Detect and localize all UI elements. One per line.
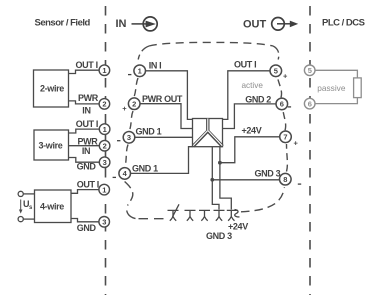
polarity minus T6: [288, 106, 291, 108]
4-wire transmitter box: [35, 190, 72, 223]
svg-text:+24V: +24V: [242, 125, 262, 135]
svg-text:GND 1: GND 1: [136, 127, 162, 137]
svg-text:6: 6: [280, 100, 284, 109]
bus connector pin 1: [168, 204, 180, 221]
svg-text:GND 2: GND 2: [245, 94, 271, 104]
isolator U1 box: [193, 119, 223, 147]
wire T6 GND 2 from isolator: [223, 104, 277, 129]
2-wire transmitter box: [34, 70, 69, 107]
polarity minus T4: [113, 176, 116, 178]
svg-text:passive: passive: [317, 83, 346, 93]
wire 4-wire OUT I: [71, 190, 99, 194]
isolator supply wire B down to bus: [220, 147, 231, 210]
bus connector pin 3: [199, 210, 210, 220]
field terminal 2 (3-wire): [99, 140, 110, 151]
wire 2-wire PWR IN: [69, 101, 100, 104]
svg-text:IN I: IN I: [149, 61, 162, 71]
field terminal 1 (4-wire): [99, 184, 110, 195]
supply terminal bottom (4-wire): [18, 217, 23, 222]
wire T1 IN I to isolator: [146, 71, 193, 120]
svg-text:IN: IN: [116, 18, 127, 30]
passive terminal 5: [304, 65, 315, 76]
module terminal 4: [119, 168, 131, 180]
wire T7 +24V: [220, 137, 280, 163]
svg-text:OUT: OUT: [243, 19, 267, 31]
isolator isolation Y barrier: [193, 119, 223, 147]
wire 3-wire GND: [69, 158, 100, 163]
module terminal 1: [134, 65, 146, 77]
module terminal 7: [280, 131, 292, 143]
module terminal 6: [276, 98, 288, 110]
module terminal 2: [128, 98, 140, 110]
svg-text:5: 5: [308, 66, 312, 75]
passive terminal 6: [304, 98, 315, 109]
svg-text:2: 2: [132, 100, 136, 109]
module terminal 3: [123, 132, 135, 144]
passive load wire top: [315, 70, 357, 78]
wire 4-wire GND: [71, 219, 99, 222]
svg-text:GND 3: GND 3: [255, 169, 281, 179]
passive load resistor: [354, 78, 362, 98]
svg-text:2: 2: [102, 100, 106, 109]
svg-text:3: 3: [103, 158, 107, 167]
module outline right edge T6-T5: [278, 78, 282, 98]
svg-text:3: 3: [102, 218, 106, 227]
svg-text:8: 8: [283, 175, 287, 184]
svg-text:OUT I: OUT I: [77, 179, 99, 189]
module terminal 5: [270, 65, 282, 77]
svg-text:3: 3: [127, 133, 131, 142]
supply terminal top (4-wire): [18, 191, 23, 196]
separator line PLC/DCS side: [309, 6, 311, 295]
svg-text:IN: IN: [82, 106, 90, 116]
junction dot A: [210, 178, 214, 182]
module outline top-left corner: [138, 46, 149, 60]
svg-text:OUT I: OUT I: [234, 60, 256, 70]
wire 2-wire OUT I: [69, 70, 100, 73]
svg-text:4-wire: 4-wire: [40, 202, 64, 212]
wire supply top: [23, 193, 34, 195]
field terminal 2 (2-wire): [99, 99, 110, 110]
Us supply arrow: [19, 199, 33, 214]
svg-text:PLC / DCS: PLC / DCS: [322, 18, 365, 29]
svg-text:2: 2: [103, 142, 107, 151]
wire 3-wire OUT I: [69, 129, 100, 133]
passive load wire bottom: [315, 98, 357, 104]
wire 3-wire PWR IN: [69, 145, 100, 147]
module outline top-right corner: [273, 46, 279, 60]
field terminal 1 (3-wire): [99, 124, 110, 135]
field terminal 1 (2-wire): [99, 65, 110, 76]
module outline right edge T7-T6: [283, 111, 286, 131]
polarity minus T8: [298, 183, 301, 185]
IN symbol: [116, 17, 158, 31]
svg-text:GND: GND: [77, 223, 97, 233]
separator line Sensor/Field side: [105, 6, 107, 295]
svg-text:7: 7: [283, 133, 287, 142]
svg-text:1: 1: [102, 66, 106, 75]
module outline right edge T8-T7: [286, 144, 289, 172]
field terminal 3 (4-wire): [99, 217, 110, 228]
svg-text:3-wire: 3-wire: [39, 141, 63, 151]
bus connector pin 4: [214, 210, 225, 220]
module outline bottom-left corner: [125, 182, 133, 206]
wire T2 PWR OUT to isolator: [140, 104, 193, 129]
svg-text:2-wire: 2-wire: [40, 84, 64, 94]
junction dot B: [218, 161, 222, 165]
module terminal 8: [280, 173, 292, 185]
svg-text:GND 3: GND 3: [206, 231, 232, 241]
svg-text:1: 1: [102, 185, 106, 194]
module outline left edge T3-T4: [125, 145, 128, 167]
svg-text:+24V: +24V: [228, 222, 248, 232]
polarity minus T1: [128, 74, 131, 76]
3-wire transmitter box: [34, 130, 69, 160]
svg-text:+: +: [294, 138, 299, 147]
polarity minus T3: [117, 140, 120, 142]
svg-text:GND 1: GND 1: [132, 163, 158, 173]
svg-text:IN: IN: [82, 146, 90, 156]
svg-text:OUT I: OUT I: [76, 60, 98, 70]
module outline left edge T1-T2: [134, 78, 138, 97]
svg-text:OUT I: OUT I: [76, 119, 98, 129]
module dashed outline top edge: [149, 42, 273, 46]
module outline bottom-left corner curve: [127, 211, 136, 219]
svg-text:+: +: [122, 104, 127, 113]
svg-text:1: 1: [138, 67, 142, 76]
wire supply bottom: [23, 218, 34, 220]
module outline bottom edge: [139, 218, 167, 220]
svg-text:PWR OUT: PWR OUT: [142, 94, 183, 104]
module outline bottom-right corner: [241, 187, 284, 212]
field terminal 3 (3-wire): [99, 157, 110, 168]
module outline left edge T2-T3: [130, 111, 134, 131]
svg-text:6: 6: [308, 99, 312, 108]
svg-text:+: +: [283, 72, 288, 81]
isolator ground wire A down to bus: [212, 147, 219, 210]
svg-text:Sensor / Field: Sensor / Field: [35, 18, 91, 29]
wire T4 GND 1 to isolator bottom: [131, 147, 193, 174]
wire T5 OUT I from isolator: [223, 71, 271, 120]
svg-text:5: 5: [274, 67, 278, 76]
svg-text:1: 1: [103, 125, 107, 134]
svg-text:GND: GND: [77, 162, 97, 172]
bus connector pin 5: [227, 210, 240, 221]
bus connector pin 2: [185, 210, 196, 220]
wire T3 GND 1 to isolator: [135, 136, 193, 138]
wire T8 GND 3: [212, 179, 285, 181]
svg-text:PWR: PWR: [78, 93, 99, 103]
OUT symbol: [243, 18, 298, 31]
svg-text:active: active: [242, 81, 264, 90]
svg-text:PWR: PWR: [78, 136, 99, 146]
